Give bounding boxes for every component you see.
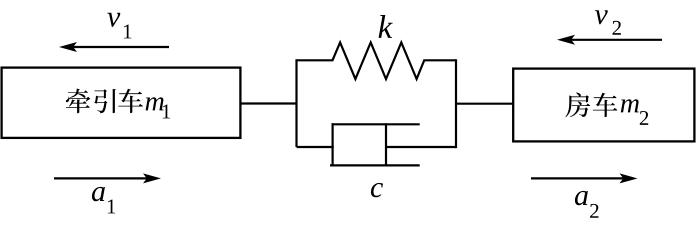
velocity arrow v1 — [71, 46, 169, 48]
mass block M2 (trailer) — [513, 69, 694, 142]
label 房车 — [565, 93, 590, 118]
damper c: rod left — [297, 146, 334, 148]
acceleration arrow a1 — [54, 177, 149, 179]
label a1 — [92, 187, 105, 201]
label m2 — [621, 99, 639, 112]
wire: coupling to M2 — [455, 103, 514, 105]
damper c: rod right — [386, 146, 456, 148]
label 牵引车 — [66, 89, 91, 114]
node: left coupling bar — [295, 59, 297, 147]
wire: M1 to coupling — [241, 102, 298, 104]
label v2 — [595, 10, 608, 24]
node: right coupling bar — [455, 59, 457, 148]
spring k — [297, 43, 457, 80]
damper c: piston plate — [385, 123, 387, 166]
label m1 — [146, 97, 164, 110]
label c — [371, 183, 383, 197]
mass block M1 (tractor) — [2, 68, 241, 138]
damper c: cylinder left wall — [332, 123, 334, 166]
label a2 — [575, 191, 588, 205]
damper c: cylinder bottom wall — [330, 164, 420, 166]
label k — [379, 15, 393, 38]
velocity arrow v2 — [569, 39, 662, 41]
acceleration arrow a2 — [531, 177, 626, 179]
damper c: cylinder top wall — [332, 123, 420, 125]
label v1 — [107, 13, 120, 27]
